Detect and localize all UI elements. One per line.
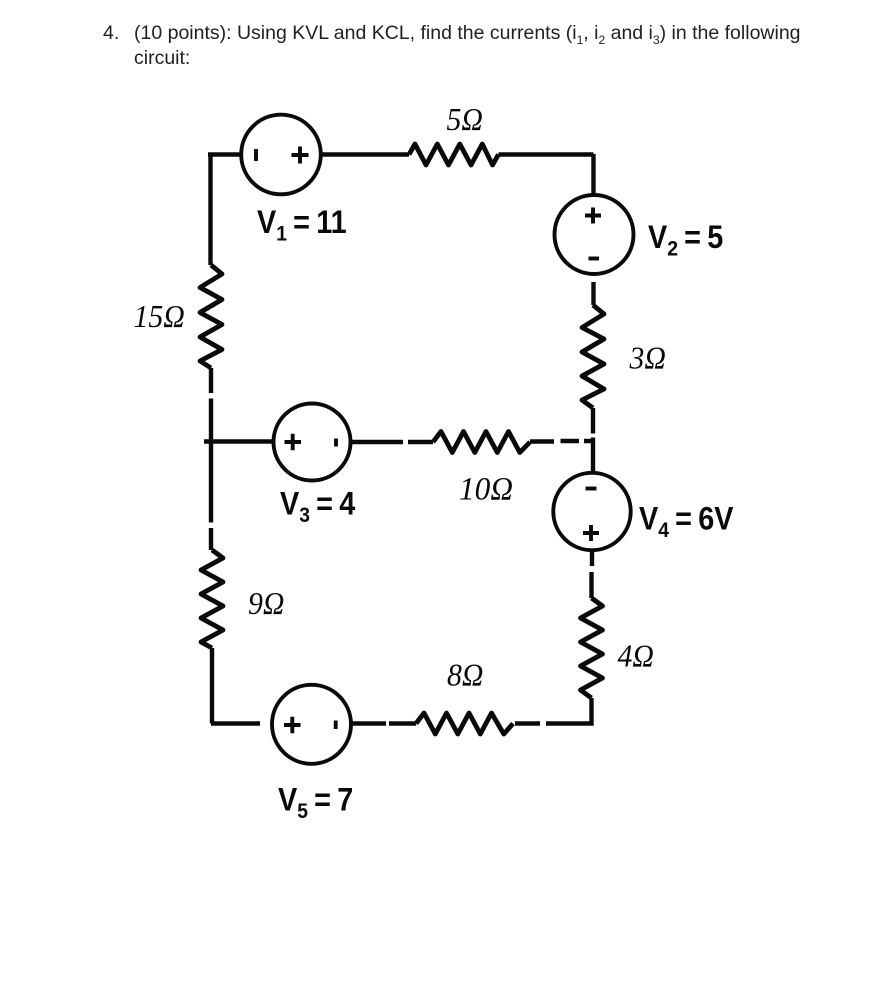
voltage source V4 circle <box>553 473 630 550</box>
voltage source V3 circle <box>274 404 351 481</box>
resistor R 8ohm zigzag <box>416 713 513 734</box>
svg-text:8Ω: 8Ω <box>447 657 483 693</box>
node A junction tick + wire to V3 <box>204 439 274 443</box>
svg-text:V5 = 7: V5 = 7 <box>278 782 353 823</box>
V3 minus tick <box>334 439 338 447</box>
V3 plus <box>285 434 302 451</box>
V2 minus <box>589 257 600 261</box>
wire: top-left stub to V1 <box>208 152 242 156</box>
wire: left rail bottom corner <box>211 648 260 724</box>
resistor R 10ohm zigzag <box>433 432 530 453</box>
svg-text:3Ω: 3Ω <box>629 340 666 376</box>
svg-text:V3 = 4: V3 = 4 <box>280 486 355 527</box>
wire: left rail below 15 ohm <box>209 368 213 442</box>
resistor R 9ohm zigzag <box>201 550 223 648</box>
resistor R 3ohm zigzag <box>582 305 604 408</box>
voltage source V1 circle <box>241 115 321 195</box>
svg-text:V2 = 5: V2 = 5 <box>648 220 723 261</box>
svg-text:10Ω: 10Ω <box>459 470 513 507</box>
V4 plus <box>583 525 599 541</box>
V5 minus tick <box>334 721 338 730</box>
voltage source V2 circle <box>555 195 634 274</box>
wire: 10 ohm to node B with gaps <box>530 439 593 444</box>
wire: 3 ohm to node B junction <box>591 408 595 434</box>
wire: 5 ohm to top-right corner, down to V2 <box>499 154 594 195</box>
resistor R 15ohm zigzag <box>200 265 222 368</box>
svg-text:5Ω: 5Ω <box>447 101 483 137</box>
V1 plus <box>292 147 309 164</box>
V2 plus <box>585 208 601 224</box>
wire: V2 to 3 ohm <box>591 282 595 305</box>
voltage source V5 circle <box>272 685 351 764</box>
wire: V4 to 4 ohm <box>589 551 594 599</box>
V5 plus <box>284 717 301 734</box>
wire: V1 to 5 ohm <box>321 152 409 156</box>
svg-text:15Ω: 15Ω <box>134 298 185 334</box>
node B junction to V4 <box>591 438 595 474</box>
wire: V3 to 10 ohm <box>351 440 433 444</box>
svg-text:9Ω: 9Ω <box>248 585 284 621</box>
svg-text:4Ω: 4Ω <box>618 638 654 674</box>
wire: 4 ohm to bottom-right corner <box>515 698 592 724</box>
wire: left rail junction to 9 ohm <box>209 442 213 551</box>
V1 minus tick <box>254 149 258 161</box>
wire: left rail upper (corner to 15 ohm top) <box>208 153 212 266</box>
resistor R 4ohm zigzag <box>581 598 603 698</box>
svg-text:V1 = 11: V1 = 11 <box>257 205 347 246</box>
resistor R 5ohm zigzag <box>409 144 499 165</box>
V4 minus <box>586 487 597 491</box>
problem number <box>103 21 119 46</box>
wire: V5 to 8 ohm <box>351 721 416 725</box>
problem statement <box>134 21 801 70</box>
svg-text:V4 = 6V: V4 = 6V <box>639 501 734 542</box>
